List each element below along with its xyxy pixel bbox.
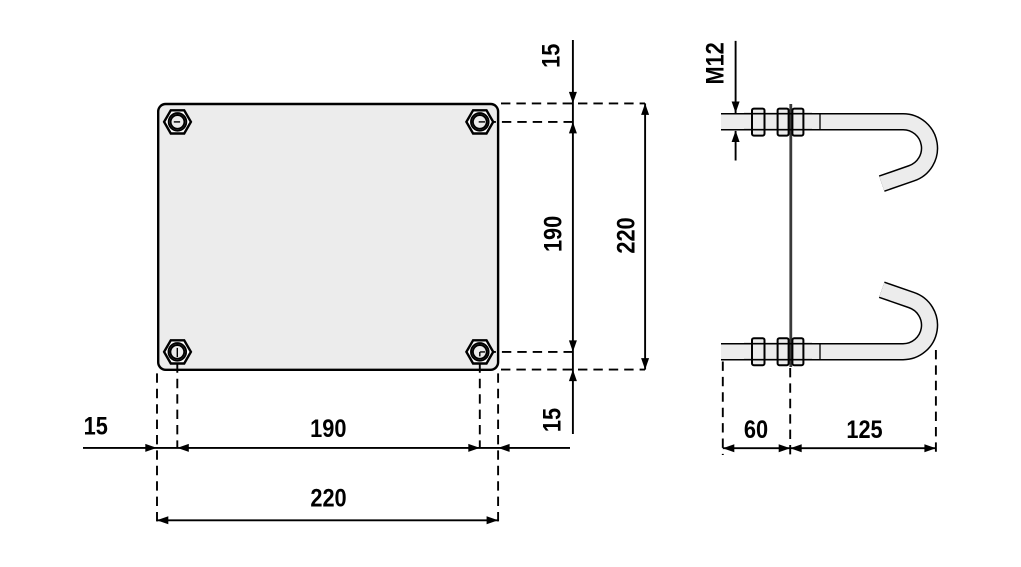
svg-text:220: 220 — [310, 484, 346, 512]
svg-text:190: 190 — [539, 216, 567, 252]
svg-text:60: 60 — [744, 416, 768, 444]
svg-text:M12: M12 — [701, 42, 729, 84]
svg-text:15: 15 — [537, 44, 565, 68]
svg-text:190: 190 — [310, 414, 346, 442]
svg-text:15: 15 — [84, 412, 108, 440]
svg-text:125: 125 — [846, 416, 882, 444]
svg-text:15: 15 — [538, 408, 566, 432]
svg-text:220: 220 — [612, 217, 640, 253]
